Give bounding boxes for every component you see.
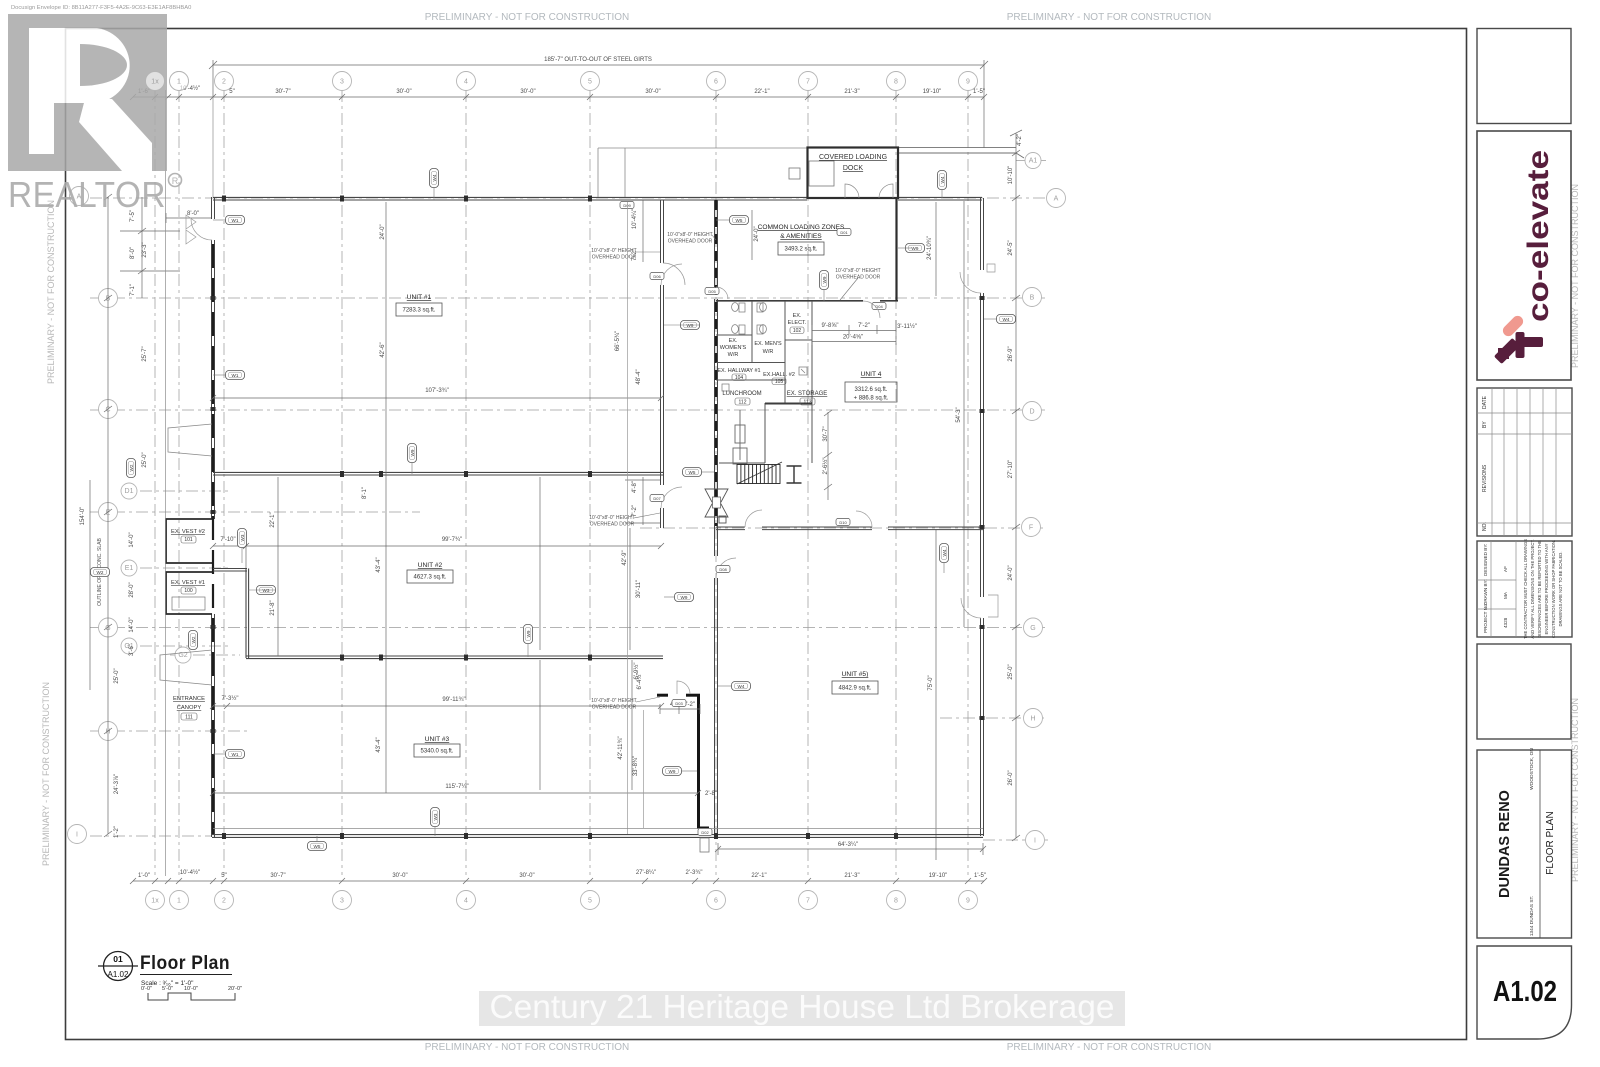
- svg-text:EX. MEN'S: EX. MEN'S: [754, 341, 782, 347]
- grid bubbles right column: [1025, 153, 1041, 169]
- svg-text:W2: W2: [191, 636, 196, 643]
- grid vertical dashed lines: [155, 90, 968, 875]
- svg-text:7: 7: [806, 898, 810, 905]
- title block box 6 project name: [1477, 750, 1572, 938]
- svg-text:W4: W4: [432, 174, 437, 181]
- svg-text:ENTRANCE: ENTRANCE: [173, 696, 205, 702]
- svg-text:EX.HALL. #2: EX.HALL. #2: [763, 372, 795, 378]
- svg-text:W1: W1: [232, 218, 239, 223]
- svg-text:3: 3: [340, 79, 344, 86]
- unit1 right vertical wall: [661, 200, 664, 528]
- svg-text:7283.3 sq.ft.: 7283.3 sq.ft.: [402, 308, 435, 314]
- common right wall: [895, 198, 897, 301]
- svg-text:5: 5: [588, 79, 592, 86]
- svg-text:42'-6": 42'-6": [380, 342, 386, 357]
- svg-text:W4: W4: [1003, 317, 1010, 322]
- svg-text:9: 9: [966, 79, 970, 86]
- svg-text:5340.0 sq.ft.: 5340.0 sq.ft.: [420, 749, 453, 755]
- grid bubbles top row: [146, 72, 165, 91]
- top right roof band: [898, 148, 1024, 158]
- svg-text:W5: W5: [314, 844, 321, 849]
- lunchroom interior bits: [733, 410, 747, 464]
- stairs: [737, 465, 780, 484]
- tag W3: [257, 586, 276, 595]
- svg-text:7'-2": 7'-2": [858, 323, 870, 329]
- svg-text:W5: W5: [689, 470, 696, 475]
- svg-text:20'-4⅝": 20'-4⅝": [843, 335, 863, 341]
- svg-text:WOMEN'S: WOMEN'S: [720, 345, 747, 351]
- svg-text:24'-0": 24'-0": [1008, 565, 1014, 580]
- svg-text:UNIT #5): UNIT #5): [842, 671, 869, 678]
- svg-text:112: 112: [739, 399, 747, 405]
- svg-text:A1.02: A1.02: [108, 970, 129, 979]
- REALTOR watermark: [8, 14, 167, 171]
- grid bubbles left column: [70, 187, 89, 206]
- svg-text:D07: D07: [653, 496, 661, 501]
- svg-text:104: 104: [735, 375, 744, 381]
- svg-text:PROJECT No:: PROJECT No:: [1483, 603, 1488, 633]
- bottom wall: [212, 835, 983, 838]
- svg-text:22'-1": 22'-1": [270, 512, 276, 527]
- svg-text:W9: W9: [912, 246, 919, 251]
- svg-text:25'-0": 25'-0": [1008, 664, 1014, 679]
- svg-text:UNIT #1: UNIT #1: [407, 294, 432, 301]
- svg-text:33'-8¾": 33'-8¾": [633, 756, 639, 776]
- svg-text:D03: D03: [675, 701, 683, 706]
- right wall: [981, 198, 984, 836]
- svg-text:01: 01: [113, 954, 123, 964]
- svg-text:30'-7": 30'-7": [270, 873, 285, 879]
- tag W4: [732, 682, 751, 691]
- svg-text:I: I: [76, 832, 78, 839]
- svg-text:22'-1": 22'-1": [754, 89, 769, 95]
- exit door bottom: [700, 838, 709, 852]
- washroom right dims: [824, 410, 832, 500]
- svg-text:4'-2": 4'-2": [1017, 134, 1023, 146]
- century 21 watermark: [479, 988, 1125, 1026]
- svg-text:3'-11½": 3'-11½": [897, 323, 917, 330]
- svg-text:26'-9": 26'-9": [1008, 346, 1014, 361]
- svg-text:W1: W1: [232, 373, 239, 378]
- 99-11 dim: [210, 703, 664, 709]
- svg-text:10'-0": 10'-0": [184, 986, 198, 992]
- svg-text:OVERHEAD DOOR: OVERHEAD DOOR: [592, 705, 637, 711]
- svg-text:W2: W2: [97, 570, 104, 575]
- svg-text:DOCK: DOCK: [843, 165, 864, 172]
- svg-text:DRAWN BY:: DRAWN BY:: [1483, 579, 1488, 605]
- tag W4: [997, 315, 1016, 324]
- title block box 2 co-elevate logo: [1477, 131, 1571, 380]
- left wall: [212, 197, 215, 837]
- svg-text:3'-6": 3'-6": [129, 644, 135, 656]
- tag W2 rotated: [127, 459, 136, 478]
- svg-text:DRAWINGS ARE NOT TO BE SCALED.: DRAWINGS ARE NOT TO BE SCALED.: [1558, 551, 1563, 626]
- svg-text:D06: D06: [653, 274, 661, 279]
- svg-text:W/R: W/R: [728, 352, 739, 358]
- svg-text:99'-11¾": 99'-11¾": [442, 697, 465, 703]
- svg-text:9: 9: [966, 898, 970, 905]
- svg-text:1x: 1x: [151, 79, 159, 86]
- svg-text:EX. HALLWAY #1: EX. HALLWAY #1: [717, 368, 760, 374]
- svg-text:W/R: W/R: [763, 349, 774, 355]
- svg-text:W4: W4: [940, 176, 945, 183]
- svg-text:UNIT #3: UNIT #3: [425, 736, 450, 743]
- svg-text:30'-0": 30'-0": [645, 89, 660, 95]
- svg-text:WOODSTOCK, ON: WOODSTOCK, ON: [1529, 748, 1535, 790]
- svg-text:24'-5": 24'-5": [1008, 240, 1014, 255]
- title block box 7 sheet number: [1477, 946, 1572, 1039]
- toilet fixtures: [722, 303, 807, 391]
- svg-text:25'-0": 25'-0": [114, 668, 120, 683]
- svg-text:107'-3¾": 107'-3¾": [425, 388, 449, 394]
- bottom inner slab line: [213, 828, 983, 830]
- washroom top wall: [716, 300, 898, 302]
- bottom dimension chain: [130, 878, 987, 884]
- svg-text:1'-5": 1'-5": [973, 89, 985, 95]
- svg-text:8'-0": 8'-0": [187, 211, 199, 217]
- svg-text:DISCREPANCIES ARE TO BE REPORT: DISCREPANCIES ARE TO BE REPORTED TO THE: [1537, 540, 1542, 638]
- co-elevate logo icon: [1494, 314, 1543, 364]
- tag W1: [226, 750, 245, 759]
- svg-text:REVISIONS: REVISIONS: [1482, 464, 1488, 492]
- svg-text:4: 4: [464, 898, 468, 905]
- svg-text:30'-11": 30'-11": [636, 580, 642, 598]
- svg-text:24'-3⅞": 24'-3⅞": [114, 774, 120, 794]
- svg-text:ENGINEER BEFORE PROCEEDING WIT: ENGINEER BEFORE PROCEEDING WITH ANY: [1544, 543, 1549, 634]
- svg-text:LUNCHROOM: LUNCHROOM: [722, 391, 761, 397]
- svg-text:14'-0": 14'-0": [129, 617, 135, 632]
- 115ft dim: [210, 790, 701, 796]
- tag W2 rotated: [189, 631, 198, 650]
- unit4 dims: [812, 320, 896, 345]
- svg-text:8: 8: [894, 898, 898, 905]
- svg-text:W1: W1: [232, 752, 239, 757]
- revisions table: [1477, 388, 1572, 536]
- svg-text:D01: D01: [840, 230, 848, 235]
- svg-text:PRELIMINARY - NOT FOR CONSTRUC: PRELIMINARY - NOT FOR CONSTRUCTION: [425, 1042, 629, 1053]
- svg-text:10'-4½": 10'-4½": [180, 869, 200, 876]
- svg-text:1: 1: [177, 898, 181, 905]
- svg-text:D1: D1: [125, 488, 134, 495]
- svg-text:3493.2 sq.ft.: 3493.2 sq.ft.: [784, 247, 817, 253]
- svg-text:W5: W5: [736, 218, 743, 223]
- tag W2: [91, 568, 110, 577]
- grid horizontal dashed lines: [90, 161, 1048, 841]
- svg-text:5": 5": [229, 89, 234, 95]
- svg-text:Century 21 Heritage House Ltd: Century 21 Heritage House Ltd Brokerage: [490, 988, 1115, 1025]
- svg-text:24'-0": 24'-0": [754, 226, 760, 241]
- tag W4 rotated: [938, 171, 947, 190]
- svg-text:7'-1": 7'-1": [130, 284, 136, 296]
- svg-text:14'-0": 14'-0": [129, 532, 135, 547]
- svg-text:111: 111: [185, 714, 193, 720]
- svg-text:21'-8": 21'-8": [270, 600, 276, 615]
- svg-text:4'-8": 4'-8": [632, 481, 638, 493]
- svg-text:W4: W4: [942, 549, 947, 556]
- svg-text:PRELIMINARY - NOT FOR CONSTRUC: PRELIMINARY - NOT FOR CONSTRUCTION: [46, 200, 56, 384]
- svg-text:5'-0": 5'-0": [162, 986, 173, 992]
- svg-text:A1.02: A1.02: [1493, 976, 1557, 1008]
- svg-text:W9: W9: [681, 595, 688, 600]
- tag W9 rotated: [524, 625, 533, 644]
- svg-text:42'-9": 42'-9": [622, 550, 628, 565]
- svg-text:+ 886.8 sq.ft.: + 886.8 sq.ft.: [854, 396, 889, 402]
- svg-text:THE CONTRACTOR MUST CHECK ALL: THE CONTRACTOR MUST CHECK ALL DRAWINGS: [1523, 539, 1528, 639]
- svg-text:W3: W3: [433, 813, 438, 820]
- svg-text:Docusign Envelope ID: 8B11A277: Docusign Envelope ID: 8B11A277-F3F5-4A2E…: [11, 5, 191, 11]
- scale bar: [141, 986, 242, 992]
- svg-text:2'-8": 2'-8": [705, 791, 717, 797]
- 107ft dim: [210, 395, 664, 401]
- tag W9: [675, 593, 694, 602]
- tag W5: [308, 842, 327, 851]
- svg-text:D02: D02: [701, 830, 709, 835]
- svg-text:185'-7" OUT-TO-OUT OF STEEL GI: 185'-7" OUT-TO-OUT OF STEEL GIRTS: [544, 57, 652, 63]
- svg-text:W2: W2: [129, 464, 134, 471]
- svg-text:W4: W4: [738, 684, 745, 689]
- svg-text:E1: E1: [125, 565, 134, 572]
- svg-text:3312.6 sq.ft.: 3312.6 sq.ft.: [854, 387, 887, 393]
- svg-text:A: A: [1054, 196, 1059, 203]
- covered loading dock: [808, 148, 899, 199]
- tag W4 rotated: [940, 544, 949, 563]
- washroom interior walls: [716, 301, 812, 463]
- svg-text:co-elevate: co-elevate: [1522, 150, 1555, 322]
- svg-text:3: 3: [340, 898, 344, 905]
- svg-text:PRELIMINARY - NOT FOR CONSTRUC: PRELIMINARY - NOT FOR CONSTRUCTION: [1007, 1042, 1211, 1053]
- svg-text:9'-8⅝": 9'-8⅝": [822, 323, 839, 329]
- dark wall unit3/5: [657, 694, 709, 829]
- svg-text:1: 1: [177, 79, 181, 86]
- svg-text:EX. VEST #1: EX. VEST #1: [171, 580, 205, 586]
- conc slab outline line: [165, 90, 167, 876]
- svg-text:1'-0": 1'-0": [138, 873, 150, 879]
- svg-text:ELECT.: ELECT.: [788, 320, 807, 326]
- svg-text:6'-4½": 6'-4½": [636, 673, 643, 690]
- tag W9 rotated: [408, 444, 417, 463]
- tag W9: [681, 321, 700, 330]
- unit1 bottom wall: [213, 472, 663, 475]
- svg-text:EX. VEST #2: EX. VEST #2: [171, 529, 205, 535]
- svg-text:PRELIMINARY - NOT FOR CONSTRUC: PRELIMINARY - NOT FOR CONSTRUCTION: [1007, 12, 1211, 23]
- tag W5: [683, 468, 702, 477]
- svg-text:5: 5: [588, 898, 592, 905]
- tag W9: [906, 244, 925, 253]
- svg-text:PRELIMINARY - NOT FOR CONSTRUC: PRELIMINARY - NOT FOR CONSTRUCTION: [425, 12, 629, 23]
- svg-text:AND VERIFY ALL DIMENSIONS ON T: AND VERIFY ALL DIMENSIONS ON THE PROJECT…: [1530, 539, 1535, 638]
- interior extension line: [627, 202, 629, 834]
- svg-text:2: 2: [222, 79, 226, 86]
- svg-text:W9: W9: [410, 449, 415, 456]
- svg-text:7'-10": 7'-10": [220, 537, 235, 543]
- svg-text:30'-0": 30'-0": [520, 89, 535, 95]
- tag W4 rotated: [430, 169, 439, 188]
- tag W1: [226, 216, 245, 225]
- svg-text:W3: W3: [263, 588, 270, 593]
- svg-text:2'-3¾": 2'-3¾": [686, 870, 703, 876]
- svg-text:26'-0": 26'-0": [1008, 770, 1014, 785]
- svg-text:30'-0": 30'-0": [396, 89, 411, 95]
- svg-text:6: 6: [714, 79, 718, 86]
- svg-text:105: 105: [775, 379, 784, 385]
- svg-text:UNIT #2: UNIT #2: [418, 562, 443, 569]
- svg-text:MA: MA: [1503, 591, 1508, 599]
- svg-text:48'-4": 48'-4": [636, 369, 642, 384]
- left canopy bump G2: [160, 650, 212, 685]
- svg-text:OVERHEAD DOOR: OVERHEAD DOOR: [668, 239, 713, 245]
- svg-text:43'-4": 43'-4": [376, 737, 382, 752]
- tag W9 rotated: [820, 271, 829, 290]
- svg-text:2: 2: [222, 898, 226, 905]
- svg-text:99'-7¾": 99'-7¾": [442, 537, 462, 543]
- top dimension chain: [130, 94, 987, 100]
- svg-text:W9: W9: [687, 323, 694, 328]
- svg-text:25'-0": 25'-0": [142, 452, 148, 467]
- svg-text:21'-3": 21'-3": [844, 873, 859, 879]
- svg-text:24'-10¾": 24'-10¾": [927, 236, 933, 260]
- svg-text:8'-0": 8'-0": [130, 247, 136, 259]
- column marks on walls: [211, 196, 985, 840]
- svg-text:42'-11¾": 42'-11¾": [618, 736, 624, 759]
- svg-text:Floor Plan: Floor Plan: [140, 953, 230, 974]
- svg-text:AF: AF: [1503, 566, 1508, 572]
- title block box 1 empty: [1477, 29, 1571, 124]
- svg-text:30'-0": 30'-0": [392, 873, 407, 879]
- overall top dimension 185ft: [209, 60, 988, 148]
- svg-text:PRELIMINARY - NOT FOR CONSTRUC: PRELIMINARY - NOT FOR CONSTRUCTION: [41, 682, 51, 866]
- svg-text:4627.3 sq.ft.: 4627.3 sq.ft.: [413, 575, 446, 581]
- svg-text:8'-1": 8'-1": [362, 487, 368, 499]
- svg-text:21'-3": 21'-3": [844, 89, 859, 95]
- svg-text:CONSTRUCTION WORK OR SHOP FABR: CONSTRUCTION WORK OR SHOP FABRICATION.: [1551, 540, 1556, 638]
- svg-text:COMMON LOADING ZONES: COMMON LOADING ZONES: [758, 224, 845, 231]
- left wall top door: [186, 215, 212, 244]
- svg-text:W9: W9: [669, 769, 676, 774]
- project info table: [1477, 541, 1572, 637]
- svg-text:10'-0"x8'-0" HEIGHT: 10'-0"x8'-0" HEIGHT: [835, 268, 880, 274]
- tag W3 rotated: [431, 808, 440, 827]
- unit2 left jog: [213, 569, 249, 659]
- svg-text:27'-8¼": 27'-8¼": [636, 870, 656, 876]
- svg-text:30'-7": 30'-7": [823, 426, 829, 441]
- svg-text:DUNDAS RENO: DUNDAS RENO: [1497, 790, 1513, 898]
- left dimension chain: [90, 197, 142, 834]
- svg-text:D: D: [1029, 409, 1034, 416]
- svg-text:4328: 4328: [1503, 617, 1508, 628]
- svg-text:23'-3": 23'-3": [142, 242, 148, 257]
- svg-text:8: 8: [894, 79, 898, 86]
- svg-text:DESIGNED BY:: DESIGNED BY:: [1483, 544, 1488, 576]
- svg-text:5": 5": [221, 873, 226, 879]
- left canopy bump C1: [168, 424, 212, 456]
- svg-text:28'-0": 28'-0": [129, 582, 135, 597]
- svg-text:FLOOR PLAN: FLOOR PLAN: [1545, 811, 1556, 874]
- svg-text:30'-7": 30'-7": [275, 89, 290, 95]
- svg-text:113: 113: [804, 399, 812, 405]
- svg-text:REALTOR: REALTOR: [8, 174, 166, 215]
- svg-text:54'-3": 54'-3": [956, 407, 962, 422]
- svg-text:UNIT 4: UNIT 4: [861, 371, 882, 378]
- svg-text:27'-10": 27'-10": [1008, 460, 1014, 479]
- svg-text:G: G: [1030, 625, 1035, 632]
- svg-text:24'-0": 24'-0": [380, 224, 386, 239]
- svg-text:W9: W9: [822, 276, 827, 283]
- svg-text:A1: A1: [1029, 158, 1038, 165]
- svg-text:EX.: EX.: [793, 313, 802, 319]
- svg-text:101: 101: [184, 537, 193, 543]
- svg-text:CANOPY: CANOPY: [177, 705, 202, 711]
- dock door symbols: [845, 184, 859, 198]
- tag W3 rotated: [238, 529, 247, 548]
- left wall dark dashes: [212, 244, 214, 834]
- svg-text:1x: 1x: [151, 898, 159, 905]
- grid bubbles redrawn over watermark: [146, 72, 165, 91]
- svg-text:75'-0": 75'-0": [928, 675, 934, 690]
- svg-text:BY: BY: [1482, 421, 1488, 428]
- svg-text:2'-6½": 2'-6½": [822, 458, 829, 475]
- svg-text:4842.9 sq.ft.: 4842.9 sq.ft.: [838, 686, 871, 692]
- svg-text:H: H: [1030, 716, 1035, 723]
- svg-text:7'-3½": 7'-3½": [222, 695, 239, 702]
- washroom left wall: [715, 200, 718, 836]
- building top wall A: [213, 197, 982, 200]
- svg-text:COVERED LOADING: COVERED LOADING: [819, 154, 887, 161]
- svg-text:10'-10": 10'-10": [1008, 166, 1014, 185]
- svg-text:1'-2": 1'-2": [114, 826, 120, 838]
- svg-text:30'-0": 30'-0": [519, 873, 534, 879]
- floor plan title circle: [98, 952, 138, 981]
- unit5 top wall F: [716, 527, 983, 530]
- 99-7 dim: [210, 540, 664, 568]
- svg-text:10'-0"x8'-0" HEIGHT: 10'-0"x8'-0" HEIGHT: [591, 698, 636, 704]
- svg-text:10'-0"x8'-0" HEIGHT: 10'-0"x8'-0" HEIGHT: [591, 248, 636, 254]
- svg-text:19'-10": 19'-10": [923, 89, 942, 95]
- svg-text:D10: D10: [839, 520, 847, 525]
- svg-text:DATE: DATE: [1482, 395, 1488, 409]
- svg-text:100: 100: [184, 588, 193, 594]
- vestibule 2: [166, 519, 212, 563]
- svg-text:OVERHEAD DOOR: OVERHEAD DOOR: [590, 522, 635, 528]
- svg-text:B: B: [1030, 295, 1035, 302]
- svg-text:0'-0": 0'-0": [141, 986, 152, 992]
- top canopy band: [598, 148, 807, 197]
- tag W1: [226, 371, 245, 380]
- svg-text:10'-0"x8'-0" HEIGHT: 10'-0"x8'-0" HEIGHT: [667, 232, 712, 238]
- svg-text:D05: D05: [708, 289, 716, 294]
- svg-text:102: 102: [793, 328, 802, 334]
- svg-text:20'-0": 20'-0": [228, 986, 242, 992]
- svg-text:W9: W9: [526, 630, 531, 637]
- svg-text:25'-7": 25'-7": [142, 346, 148, 361]
- svg-text:43'-4": 43'-4": [376, 557, 382, 572]
- svg-text:R: R: [172, 176, 179, 186]
- door at dark wall top: [677, 681, 690, 694]
- svg-text:22'-1": 22'-1": [751, 873, 766, 879]
- svg-text:EX. STORAGE: EX. STORAGE: [787, 391, 828, 397]
- svg-text:64'-3¼": 64'-3¼": [838, 842, 858, 848]
- svg-text:W3: W3: [240, 534, 245, 541]
- 64ft dimension: [715, 843, 986, 855]
- svg-text:154'-0": 154'-0": [80, 507, 86, 526]
- svg-text:10'-0"x8'-0" HEIGHT: 10'-0"x8'-0" HEIGHT: [589, 515, 634, 521]
- svg-text:OVERHEAD DOOR: OVERHEAD DOOR: [592, 255, 637, 261]
- svg-text:7: 7: [806, 79, 810, 86]
- svg-text:4: 4: [464, 79, 468, 86]
- svg-text:1'-5": 1'-5": [974, 873, 986, 879]
- svg-text:19'-10": 19'-10": [929, 873, 948, 879]
- svg-text:NO.: NO.: [1482, 522, 1488, 531]
- tag W5: [730, 216, 749, 225]
